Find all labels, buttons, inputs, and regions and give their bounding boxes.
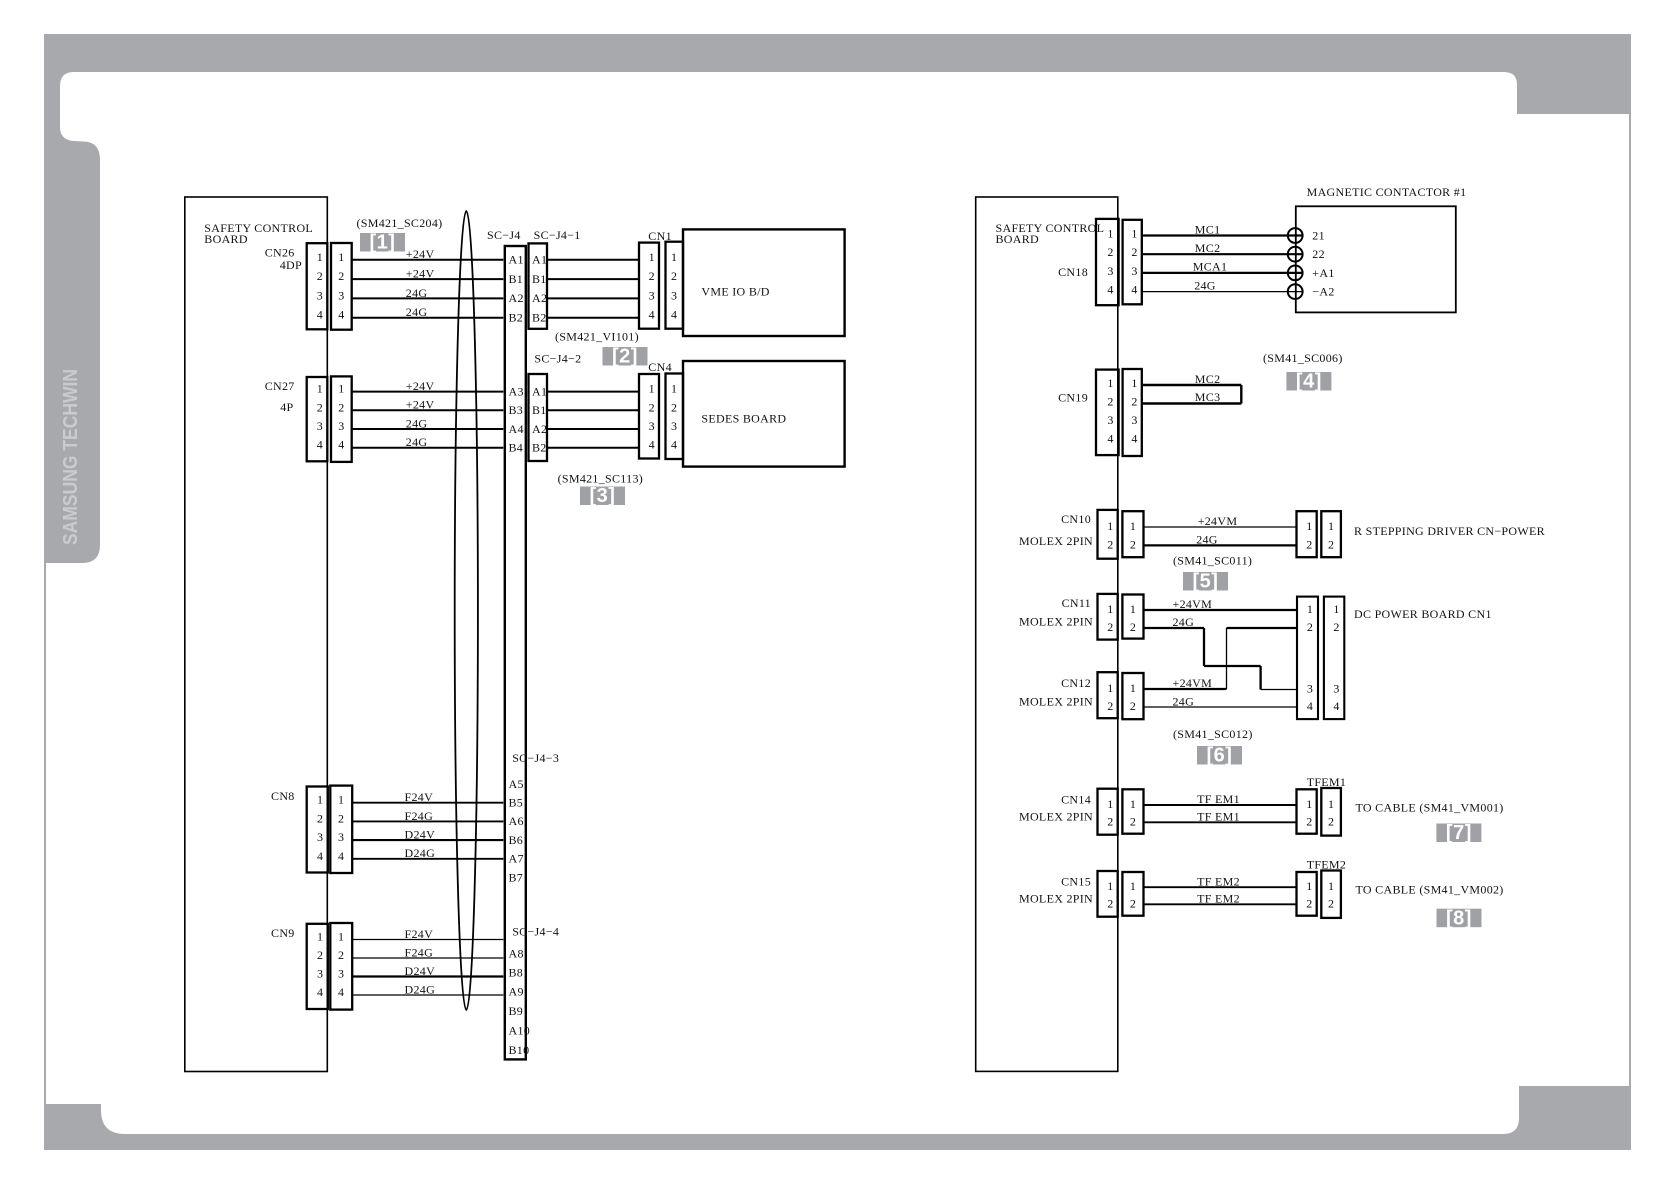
svg-text:R STEPPING DRIVER CN−POWER: R STEPPING DRIVER CN−POWER — [1354, 524, 1545, 538]
svg-text:SEDES BOARD: SEDES BOARD — [701, 412, 786, 426]
svg-text:2: 2 — [1130, 699, 1136, 713]
svg-text:1: 1 — [338, 382, 344, 396]
svg-text:B1: B1 — [509, 272, 524, 286]
svg-text:TF EM1: TF EM1 — [1197, 792, 1240, 806]
svg-text:2: 2 — [1130, 814, 1136, 828]
svg-text:+24V: +24V — [406, 398, 435, 412]
svg-text:SC−J4−3: SC−J4−3 — [512, 751, 559, 765]
svg-text:2: 2 — [671, 269, 677, 283]
svg-text:4: 4 — [317, 985, 323, 999]
svg-text:2: 2 — [338, 948, 344, 962]
svg-text:F24G: F24G — [405, 945, 434, 959]
svg-text:2: 2 — [649, 400, 655, 414]
svg-text:2: 2 — [1333, 620, 1339, 634]
svg-text:MOLEX 2PIN: MOLEX 2PIN — [1019, 534, 1093, 548]
svg-text:MOLEX 2PIN: MOLEX 2PIN — [1019, 809, 1093, 823]
svg-text:[5]: [5] — [1193, 571, 1219, 593]
svg-text:B8: B8 — [509, 966, 524, 980]
svg-text:1: 1 — [338, 930, 344, 944]
svg-text:1: 1 — [1107, 879, 1113, 893]
svg-text:1: 1 — [317, 930, 323, 944]
svg-text:+24VM: +24VM — [1173, 676, 1213, 690]
svg-text:[8]: [8] — [1446, 907, 1472, 929]
svg-text:2: 2 — [1306, 896, 1312, 910]
svg-text:MC1: MC1 — [1195, 222, 1221, 236]
svg-text:1: 1 — [1306, 797, 1312, 811]
svg-text:1: 1 — [1130, 519, 1136, 533]
svg-text:2: 2 — [317, 269, 323, 283]
svg-text:TO CABLE (SM41_VM001): TO CABLE (SM41_VM001) — [1356, 801, 1504, 815]
svg-text:1: 1 — [338, 793, 344, 807]
svg-text:2: 2 — [1131, 395, 1137, 409]
svg-text:MOLEX 2PIN: MOLEX 2PIN — [1019, 695, 1093, 709]
svg-text:24G: 24G — [406, 305, 428, 319]
svg-text:3: 3 — [1333, 682, 1339, 696]
svg-text:D24G: D24G — [405, 982, 436, 996]
svg-text:B1: B1 — [532, 272, 547, 286]
svg-text:1: 1 — [1107, 227, 1113, 241]
svg-text:(SM421_SC204): (SM421_SC204) — [357, 216, 443, 230]
svg-text:21: 21 — [1312, 229, 1325, 243]
svg-text:4P: 4P — [280, 400, 293, 414]
svg-text:TF EM2: TF EM2 — [1197, 892, 1240, 906]
svg-text:1: 1 — [1306, 879, 1312, 893]
svg-text:24G: 24G — [1173, 694, 1195, 708]
svg-text:CN9: CN9 — [271, 926, 295, 940]
svg-text:4: 4 — [1131, 432, 1137, 446]
svg-text:A9: A9 — [509, 984, 524, 998]
svg-text:4DP: 4DP — [280, 258, 302, 272]
svg-text:3: 3 — [338, 288, 344, 302]
svg-text:2: 2 — [1328, 896, 1334, 910]
svg-text:4: 4 — [1131, 283, 1137, 297]
svg-text:+24V: +24V — [406, 267, 435, 281]
svg-text:24G: 24G — [406, 286, 428, 300]
svg-text:B3: B3 — [509, 403, 524, 417]
svg-text:4: 4 — [1107, 432, 1113, 446]
svg-text:3: 3 — [1107, 413, 1113, 427]
svg-text:1: 1 — [649, 382, 655, 396]
svg-text:2: 2 — [338, 811, 344, 825]
svg-text:+24VM: +24VM — [1198, 514, 1238, 528]
svg-text:4: 4 — [338, 308, 344, 322]
svg-text:B5: B5 — [509, 796, 524, 810]
svg-text:2: 2 — [671, 400, 677, 414]
svg-text:2: 2 — [1107, 814, 1113, 828]
svg-text:2: 2 — [649, 269, 655, 283]
svg-text:(SM421_VI101): (SM421_VI101) — [555, 330, 639, 344]
svg-text:1: 1 — [1328, 519, 1334, 533]
svg-text:2: 2 — [1306, 537, 1312, 551]
svg-text:A7: A7 — [509, 852, 524, 866]
svg-text:CN10: CN10 — [1061, 512, 1091, 526]
svg-text:3: 3 — [1107, 264, 1113, 278]
svg-text:2: 2 — [1107, 537, 1113, 551]
svg-text:A2: A2 — [532, 291, 547, 305]
svg-text:2: 2 — [317, 811, 323, 825]
svg-text:3: 3 — [1307, 682, 1313, 696]
svg-text:3: 3 — [1131, 413, 1137, 427]
svg-text:3: 3 — [671, 419, 677, 433]
svg-text:1: 1 — [1107, 519, 1113, 533]
svg-text:24G: 24G — [1194, 278, 1216, 292]
svg-text:CN14: CN14 — [1061, 793, 1091, 807]
svg-text:4: 4 — [317, 849, 323, 863]
svg-text:1: 1 — [1306, 519, 1312, 533]
svg-text:24G: 24G — [406, 416, 428, 430]
svg-text:A1: A1 — [532, 384, 547, 398]
svg-text:CN4: CN4 — [648, 360, 672, 374]
svg-text:2: 2 — [1130, 620, 1136, 634]
svg-text:[1]: [1] — [370, 232, 396, 254]
svg-text:CN8: CN8 — [271, 789, 295, 803]
svg-text:2: 2 — [1107, 699, 1113, 713]
svg-text:4: 4 — [338, 849, 344, 863]
svg-text:CN18: CN18 — [1058, 265, 1088, 279]
svg-text:4: 4 — [649, 308, 655, 322]
svg-text:24G: 24G — [406, 435, 428, 449]
svg-text:B9: B9 — [509, 1004, 524, 1018]
svg-text:MC2: MC2 — [1195, 241, 1221, 255]
svg-text:+24V: +24V — [406, 247, 435, 261]
svg-text:F24V: F24V — [405, 790, 434, 804]
svg-text:24G: 24G — [1196, 533, 1218, 547]
svg-text:SC−J4−4: SC−J4−4 — [512, 925, 559, 939]
svg-text:1: 1 — [1130, 602, 1136, 616]
svg-text:B2: B2 — [509, 311, 524, 325]
svg-text:−A2: −A2 — [1312, 285, 1334, 299]
svg-text:F24V: F24V — [405, 927, 434, 941]
svg-text:SC−J4: SC−J4 — [487, 228, 521, 242]
svg-text:CN27: CN27 — [265, 379, 295, 393]
svg-text:TF EM1: TF EM1 — [1197, 810, 1240, 824]
svg-text:2: 2 — [317, 948, 323, 962]
svg-text:A6: A6 — [509, 814, 524, 828]
svg-text:1: 1 — [1130, 797, 1136, 811]
svg-text:D24V: D24V — [405, 828, 436, 842]
svg-text:B10: B10 — [509, 1043, 530, 1057]
svg-text:A1: A1 — [509, 253, 524, 267]
svg-text:3: 3 — [649, 419, 655, 433]
svg-text:3: 3 — [671, 288, 677, 302]
svg-text:MC3: MC3 — [1195, 390, 1221, 404]
svg-text:B2: B2 — [532, 441, 547, 455]
svg-text:2: 2 — [1107, 896, 1113, 910]
svg-text:2: 2 — [338, 400, 344, 414]
svg-text:D24V: D24V — [405, 964, 436, 978]
svg-text:1: 1 — [1333, 602, 1339, 616]
svg-text:[6]: [6] — [1207, 745, 1233, 767]
svg-text:(SM41_SC012): (SM41_SC012) — [1173, 727, 1253, 741]
svg-text:4: 4 — [1307, 699, 1313, 713]
svg-text:1: 1 — [1131, 227, 1137, 241]
svg-text:2: 2 — [1131, 245, 1137, 259]
svg-text:4: 4 — [317, 438, 323, 452]
svg-text:+24VM: +24VM — [1173, 597, 1213, 611]
svg-text:TF EM2: TF EM2 — [1197, 875, 1240, 889]
svg-text:TFEM2: TFEM2 — [1307, 857, 1347, 871]
svg-text:3: 3 — [649, 288, 655, 302]
svg-text:1: 1 — [1328, 879, 1334, 893]
svg-text:(SM41_SC011): (SM41_SC011) — [1173, 553, 1252, 567]
svg-text:A5: A5 — [509, 777, 524, 791]
svg-text:1: 1 — [1130, 681, 1136, 695]
svg-text:SC−J4−2: SC−J4−2 — [534, 352, 581, 366]
svg-text:MOLEX 2PIN: MOLEX 2PIN — [1019, 891, 1093, 905]
svg-text:4: 4 — [1107, 283, 1113, 297]
svg-text:1: 1 — [1107, 797, 1113, 811]
svg-text:MCA1: MCA1 — [1193, 260, 1228, 274]
svg-text:[3]: [3] — [590, 485, 616, 507]
svg-text:1: 1 — [338, 250, 344, 264]
svg-text:1: 1 — [1107, 681, 1113, 695]
svg-text:1: 1 — [1130, 879, 1136, 893]
svg-text:TO CABLE (SM41_VM002): TO CABLE (SM41_VM002) — [1356, 882, 1504, 896]
svg-text:[7]: [7] — [1446, 822, 1472, 844]
svg-text:2: 2 — [338, 269, 344, 283]
svg-text:TFEM1: TFEM1 — [1307, 775, 1347, 789]
svg-text:1: 1 — [1107, 602, 1113, 616]
svg-text:4: 4 — [671, 438, 677, 452]
svg-text:CN11: CN11 — [1062, 596, 1091, 610]
svg-text:1: 1 — [649, 250, 655, 264]
svg-text:1: 1 — [1107, 376, 1113, 390]
svg-text:MOLEX 2PIN: MOLEX 2PIN — [1019, 614, 1093, 628]
svg-text:BOARD: BOARD — [204, 232, 248, 246]
svg-text:DC POWER BOARD CN1: DC POWER BOARD CN1 — [1354, 607, 1492, 621]
svg-text:B1: B1 — [532, 403, 547, 417]
svg-text:2: 2 — [317, 400, 323, 414]
svg-text:3: 3 — [317, 830, 323, 844]
svg-text:3: 3 — [317, 967, 323, 981]
svg-text:3: 3 — [338, 967, 344, 981]
svg-text:A2: A2 — [509, 291, 524, 305]
svg-text:CN12: CN12 — [1061, 676, 1091, 690]
svg-text:[2]: [2] — [612, 346, 638, 368]
svg-text:2: 2 — [1307, 620, 1313, 634]
svg-text:MAGNETIC CONTACTOR #1: MAGNETIC CONTACTOR #1 — [1307, 185, 1467, 199]
svg-text:B7: B7 — [509, 870, 524, 884]
svg-text:1: 1 — [671, 382, 677, 396]
svg-text:2: 2 — [1130, 537, 1136, 551]
svg-text:3: 3 — [338, 419, 344, 433]
svg-text:(SM41_SC006): (SM41_SC006) — [1263, 351, 1343, 365]
svg-text:1: 1 — [317, 793, 323, 807]
svg-text:1: 1 — [671, 250, 677, 264]
svg-text:4: 4 — [338, 985, 344, 999]
svg-text:SC−J4−1: SC−J4−1 — [534, 228, 581, 242]
svg-text:A4: A4 — [509, 422, 524, 436]
svg-text:A2: A2 — [532, 422, 547, 436]
svg-text:A3: A3 — [509, 384, 524, 398]
svg-text:4: 4 — [671, 308, 677, 322]
svg-text:3: 3 — [317, 288, 323, 302]
svg-text:1: 1 — [317, 382, 323, 396]
svg-text:BOARD: BOARD — [996, 232, 1040, 246]
svg-text:F24G: F24G — [405, 809, 434, 823]
svg-text:MC2: MC2 — [1195, 372, 1221, 386]
svg-text:+A1: +A1 — [1312, 266, 1334, 280]
svg-text:22: 22 — [1312, 247, 1325, 261]
svg-text:3: 3 — [1131, 264, 1137, 278]
svg-text:+24V: +24V — [406, 379, 435, 393]
svg-text:3: 3 — [338, 830, 344, 844]
svg-text:D24G: D24G — [405, 846, 436, 860]
svg-text:2: 2 — [1306, 814, 1312, 828]
svg-text:1: 1 — [1131, 376, 1137, 390]
svg-text:2: 2 — [1107, 395, 1113, 409]
svg-text:VME IO B/D: VME IO B/D — [701, 285, 769, 299]
svg-text:1: 1 — [317, 250, 323, 264]
svg-text:2: 2 — [1328, 537, 1334, 551]
svg-text:SAMSUNG TECHWIN: SAMSUNG TECHWIN — [60, 369, 82, 545]
svg-text:2: 2 — [1107, 620, 1113, 634]
svg-text:2: 2 — [1130, 896, 1136, 910]
svg-text:24G: 24G — [1173, 615, 1195, 629]
svg-text:A10: A10 — [509, 1023, 531, 1037]
svg-text:CN19: CN19 — [1058, 391, 1088, 405]
svg-text:A8: A8 — [509, 947, 524, 961]
svg-text:(SM421_SC113): (SM421_SC113) — [558, 472, 643, 486]
svg-text:2: 2 — [1107, 245, 1113, 259]
svg-text:4: 4 — [1333, 699, 1339, 713]
svg-text:4: 4 — [649, 438, 655, 452]
svg-text:3: 3 — [317, 419, 323, 433]
svg-text:B6: B6 — [509, 833, 524, 847]
svg-text:CN15: CN15 — [1061, 874, 1091, 888]
svg-text:A1: A1 — [532, 253, 547, 267]
svg-text:B4: B4 — [509, 441, 524, 455]
svg-text:B2: B2 — [532, 311, 547, 325]
svg-text:4: 4 — [338, 438, 344, 452]
svg-text:1: 1 — [1328, 797, 1334, 811]
svg-text:[4]: [4] — [1296, 371, 1322, 393]
svg-text:4: 4 — [317, 308, 323, 322]
svg-text:2: 2 — [1328, 814, 1334, 828]
svg-text:1: 1 — [1307, 602, 1313, 616]
